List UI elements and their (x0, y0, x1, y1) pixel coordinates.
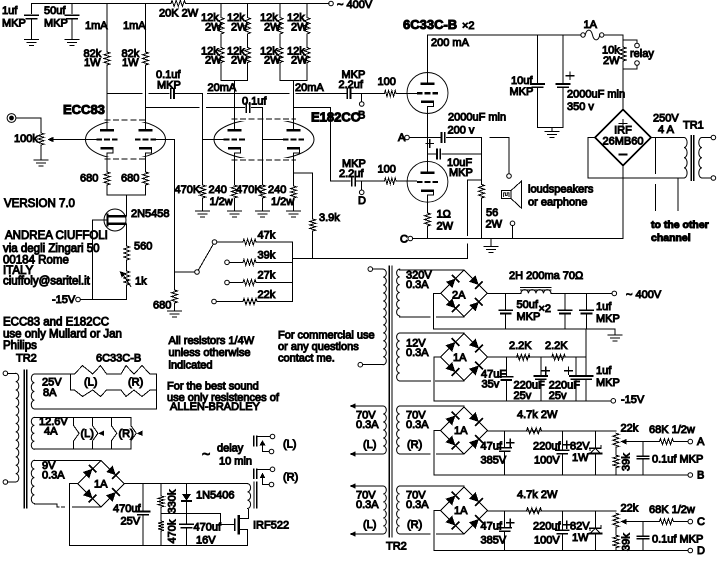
wire 2A left (434, 293, 441, 329)
label C (400, 234, 408, 246)
label 82V 1W C (570, 521, 590, 545)
label 220uf 100V C (533, 521, 561, 547)
label 10uF MKP (447, 157, 473, 179)
terminal B (359, 102, 364, 107)
label + 2000uF 350v (566, 72, 573, 79)
relay contact branch (623, 40, 639, 69)
svg-text:2W: 2W (291, 55, 308, 67)
svg-text:220uf: 220uf (533, 521, 561, 533)
label 6C33C-B heaters (96, 353, 141, 365)
label 4.7k 2W C (517, 489, 558, 501)
svg-text:4.7k 2W: 4.7k 2W (517, 489, 558, 501)
label TR2 left (16, 353, 37, 365)
label 100k (14, 133, 38, 145)
resistor 22k (243, 299, 257, 305)
label delay 10 min (202, 443, 252, 468)
label 1mA left (85, 20, 108, 32)
label 0.1uf coupling2 (242, 96, 267, 108)
svg-text:1A: 1A (584, 19, 598, 31)
terminal A (688, 439, 693, 444)
wire anode upper drop (427, 35, 429, 73)
resistor 3.9k (310, 219, 316, 231)
label 1uf MKP 400V (596, 301, 620, 325)
svg-text:100V: 100V (534, 535, 560, 547)
resistor 22k divider A (613, 433, 619, 447)
label 12k 2W chain2 upper (227, 12, 248, 34)
transformer 70V (R) winding C (397, 486, 400, 534)
label 220uF 25v #2 (549, 380, 580, 403)
wire 12V bridge left (434, 357, 441, 401)
resistor 240 cathode1 (231, 153, 237, 211)
terminal TR1 top (711, 135, 716, 140)
wire 27k (229, 282, 243, 284)
svg-text:1A: 1A (454, 425, 468, 437)
resistor 330k (158, 484, 164, 514)
label 82V 1W A (570, 441, 590, 465)
wire 12k chain 3 mid (279, 34, 281, 48)
node D stub (361, 181, 363, 190)
label 12k 2W chain3 upper (260, 12, 281, 34)
svg-text:2W: 2W (603, 55, 620, 67)
svg-text:MKP: MKP (596, 313, 620, 325)
svg-text:(R): (R) (283, 472, 298, 484)
transformer TR2L 12.6V winding (31, 417, 34, 449)
terminal TR1 bottom (711, 176, 716, 181)
wire 12k chain 1 top (220, 4, 222, 18)
wire E182CC grid1 bus (202, 94, 204, 186)
terminal A (405, 135, 410, 140)
heater resistor kink 4 (131, 417, 143, 449)
svg-text:channel: channel (651, 232, 691, 244)
capacitor 220uf 100V A (556, 431, 569, 475)
svg-text:MKP: MKP (157, 80, 181, 92)
capacitor 0.1uf MKP coupling1 (171, 89, 174, 99)
wire 100 to upper tube grid (396, 93, 417, 95)
wire to other channel 2 (677, 178, 679, 211)
svg-text:68K 1/2w: 68K 1/2w (649, 504, 695, 516)
wire delay bridge left (70, 484, 78, 546)
label 50uf MKP (44, 5, 68, 30)
capacitor 470uf 16V (180, 514, 193, 546)
label VERSION 7.0 (4, 198, 75, 210)
wire 12k chain 3 bottom (279, 63, 281, 81)
svg-text:2W: 2W (486, 219, 503, 231)
label 22k A (621, 423, 639, 435)
label 2000uF min 350 v (567, 89, 625, 114)
label + 220uf A (563, 441, 570, 448)
svg-text:2W: 2W (291, 22, 308, 34)
wire 70V top A (400, 405, 464, 407)
svg-text:220uf: 220uf (533, 441, 561, 453)
label 2.2K #1 (509, 340, 532, 352)
label + IRF 26MB60 - (603, 120, 644, 155)
wire 70V L leads C (350, 483, 384, 537)
resistor heater top (71, 366, 157, 374)
label 12k 2W chain4 lower (287, 46, 308, 67)
svg-text:-15V: -15V (621, 394, 645, 406)
svg-text:27k: 27k (258, 270, 276, 282)
svg-text:or earphone: or earphone (528, 197, 587, 209)
label + 2000uF (426, 140, 433, 147)
tube E182CC envelope (214, 116, 314, 163)
capacitor 220uF 25v #1 (534, 357, 547, 401)
svg-text:16V: 16V (196, 535, 216, 547)
label (R) relay (283, 472, 298, 484)
label 470K #1 (175, 184, 201, 196)
resistor 56 2W (479, 185, 485, 199)
wire 100 to lower tube grid (396, 180, 417, 182)
wire 2A right to choke (487, 292, 521, 294)
svg-text:(L): (L) (363, 519, 376, 531)
wire speaker minus to rail (512, 226, 514, 239)
wire heater left join (70, 374, 72, 390)
svg-text:(L): (L) (84, 377, 97, 389)
label 39k (258, 250, 276, 262)
svg-text:2000uF min: 2000uF min (567, 89, 625, 101)
svg-text:1Ω: 1Ω (437, 209, 451, 221)
label 12k 2W chain1 upper (201, 12, 222, 34)
resistor 12k 2W chain4 upper (304, 18, 310, 35)
capacitor 0.1uf coupling2 (246, 103, 249, 113)
wire 68K to terminal A (674, 441, 689, 443)
tube ECC83 triode2 internals (135, 129, 156, 153)
svg-text:or any questions: or any questions (278, 341, 359, 353)
svg-text:8A: 8A (43, 387, 57, 399)
svg-text:×2: ×2 (539, 303, 552, 315)
wire 9V bottom to bridge (34, 504, 101, 507)
rectifier IRF 26MB60 (595, 110, 651, 166)
resistor 470K grid1 (200, 185, 206, 211)
svg-text:3.9k: 3.9k (319, 212, 340, 224)
wire plate2 to cap2 (146, 106, 245, 108)
transformer 70V (L) winding C (383, 486, 386, 534)
label 1A delay bridge (94, 479, 108, 491)
wire 3.9k bottom (312, 231, 314, 258)
label 220uF 25v #1 (514, 380, 545, 403)
wire E182CC grid1 lead (203, 139, 224, 141)
switch lever (198, 244, 213, 270)
wire bottom rail C (434, 550, 688, 552)
label 1N5406 (196, 490, 235, 502)
svg-text:(R): (R) (128, 377, 143, 389)
label 0.1uf MKP coupling1 (156, 69, 181, 92)
wire plate1 drop (106, 4, 108, 53)
label 82k 1W #1 (84, 48, 102, 69)
transistor IRF522 (235, 510, 249, 546)
wire out node drop (481, 138, 483, 185)
wire fuse to relay node (604, 35, 623, 47)
label 2.2K #2 (545, 340, 568, 352)
switch contact 47k (212, 240, 217, 245)
svg-text:(L): (L) (363, 439, 376, 451)
transistor 2N5458 (93, 209, 127, 231)
label 680 cathode2 (121, 173, 139, 185)
svg-text:~: ~ (202, 446, 210, 462)
resistor 39k (243, 259, 256, 265)
resistor heater bottom (71, 390, 157, 397)
svg-text:0.3A: 0.3A (356, 499, 379, 511)
transformer TR1 core (691, 136, 694, 181)
svg-text:100: 100 (378, 76, 396, 88)
label 1A A (454, 425, 468, 437)
wire 12V top (400, 332, 464, 334)
wire 47k right (256, 241, 292, 243)
terminal D (359, 190, 364, 195)
label 39k vertical C (621, 533, 633, 551)
tube 6C33C-B lower envelope (407, 161, 448, 202)
svg-text:(R): (R) (119, 428, 134, 440)
wire 12k chain 3 top (279, 4, 281, 18)
wire plus rail C (488, 510, 616, 512)
wire 1ohm to rail (427, 226, 429, 239)
wire 12k chain 4 mid (306, 34, 308, 48)
svg-text:22k: 22k (258, 289, 276, 301)
svg-text:1uf: 1uf (596, 365, 612, 377)
resistor 12k 2W chain2 upper (245, 18, 251, 35)
label ~ 400V top (337, 0, 373, 11)
label 1A C (454, 505, 468, 517)
relay contact L (254, 434, 275, 454)
wire 39k right (256, 261, 292, 263)
svg-text:680: 680 (153, 300, 171, 312)
wire gate down (92, 220, 94, 300)
svg-text:39k: 39k (621, 533, 633, 551)
svg-text:(R): (R) (407, 519, 422, 531)
capacitor 10uf MKP B+ (531, 35, 544, 127)
resistor 20K 2W on rail (171, 1, 186, 7)
svg-text:ECC83 and E182CC: ECC83 and E182CC (3, 317, 109, 329)
wire jack to pot (16, 118, 41, 133)
svg-text:relay: relay (630, 48, 654, 60)
label C (697, 516, 705, 528)
wire 82k to anode1 (106, 65, 108, 129)
tube 6C33C-B upper envelope (407, 73, 448, 114)
label + 47uf C (507, 519, 514, 526)
label + 220uF #2 (565, 367, 572, 374)
label 70V 0.3A (R) C (406, 490, 429, 532)
svg-text:VERSION 7.0: VERSION 7.0 (4, 198, 75, 210)
wire 70V bottom C (400, 533, 464, 535)
wire cap1 to grid node (176, 93, 203, 95)
resistor 1 ohm 2W (425, 213, 431, 226)
label IRF522 (253, 520, 289, 532)
svg-text:For commercial use: For commercial use (278, 330, 375, 342)
svg-text:560: 560 (134, 241, 152, 253)
label 240 1/2w #1 (209, 184, 233, 208)
ground 470K #1 (196, 211, 210, 217)
label 47uf 385V C (481, 521, 507, 547)
wire cap bottoms join (538, 127, 564, 131)
label 12k 2W chain4 upper (287, 12, 308, 34)
resistor 680 feedback (172, 290, 178, 311)
wire anode feed t2 (293, 81, 295, 130)
resistor 82k 1W #1 (104, 52, 110, 65)
label 47uF 35v (481, 369, 506, 391)
svg-text:For the best sound: For the best sound (167, 381, 259, 393)
label (L) relay (283, 439, 296, 451)
svg-text:MKP: MKP (44, 18, 68, 30)
label 25V 8A (42, 377, 62, 400)
svg-text:25v: 25v (514, 390, 532, 402)
svg-text:0.3A: 0.3A (406, 347, 429, 359)
label loudspeakers or earphone (528, 184, 594, 209)
transformer 70V (R) winding A (397, 406, 400, 454)
svg-text:680: 680 (121, 173, 139, 185)
label + 47uf A (507, 439, 514, 446)
label 4.7k 2W A (517, 409, 558, 421)
svg-text:56: 56 (486, 207, 498, 219)
svg-text:2W: 2W (231, 22, 248, 34)
wire cathodes join (107, 185, 146, 216)
svg-text:D: D (697, 545, 705, 557)
svg-text:25v: 25v (549, 390, 567, 402)
svg-text:TR1: TR1 (683, 120, 704, 132)
wire to other channel 1 (654, 138, 656, 211)
svg-text:385V: 385V (481, 455, 507, 467)
label 47uf 385V A (481, 441, 507, 467)
svg-text:470uf: 470uf (113, 503, 141, 515)
wire prim bottom (8, 481, 16, 483)
rectifier bridge 1A 12V (441, 334, 488, 381)
label A (398, 132, 406, 144)
resistor 100 grid stopper upper (385, 91, 397, 97)
label MKP 2.2uf upper (339, 69, 366, 91)
svg-text:4A: 4A (44, 426, 58, 438)
svg-text:2W: 2W (264, 55, 281, 67)
label D (697, 545, 705, 557)
wire feedback riser (468, 180, 482, 258)
svg-text:4 A: 4 A (658, 124, 675, 136)
capacitor 1uf MKP 400V (580, 293, 593, 329)
svg-text:use only Mullard or Jan: use only Mullard or Jan (3, 329, 122, 341)
wire 320V top (400, 269, 464, 271)
wire choke to 400V (551, 292, 612, 294)
svg-text:E182CC: E182CC (311, 110, 361, 125)
label 22k (258, 289, 276, 301)
label 250V 4A (653, 113, 679, 137)
svg-text:MKP: MKP (510, 86, 534, 98)
wire upper cathode to lower anode (427, 107, 429, 171)
label best sound note (167, 381, 280, 414)
label 12k 2W chain3 lower (260, 46, 281, 67)
label 22k C (621, 503, 639, 515)
label 3.9k (319, 212, 340, 224)
label 0.1uf MKP C (652, 534, 703, 546)
svg-text:ciuffoly@saritel.it: ciuffoly@saritel.it (3, 276, 91, 288)
speaker icon (502, 181, 522, 208)
resistor 12k 2W chain4 lower (304, 48, 310, 63)
resistor 560 (124, 246, 130, 260)
svg-text:385V: 385V (481, 535, 507, 547)
svg-text:350 v: 350 v (567, 101, 594, 113)
svg-text:(L): (L) (81, 428, 94, 440)
wire switch common stub (175, 271, 195, 273)
label 12k 2W chain1 lower (201, 46, 222, 67)
wire 12k chain 1 bottom (220, 63, 222, 81)
svg-text:C: C (697, 516, 705, 528)
wire E182CC grid2 bus (262, 107, 264, 185)
svg-text:20mA: 20mA (208, 82, 237, 94)
svg-text:470uf: 470uf (194, 522, 222, 534)
label all resistors note (169, 335, 255, 372)
label B (697, 470, 704, 482)
label 100 upper (378, 76, 396, 88)
svg-text:22k: 22k (621, 423, 639, 435)
switch contact 27k (225, 280, 230, 285)
transformer TR1 secondary (699, 138, 702, 179)
wire 12k chain 2 mid (247, 34, 249, 48)
wire 10k bottom (622, 61, 624, 69)
transformer TR2L 25V winding (31, 374, 34, 409)
svg-text:20K 2W: 20K 2W (159, 8, 199, 20)
wire 12.6 bottom rail (34, 448, 130, 450)
wire relay node to bridge (622, 69, 624, 110)
terminal TR2 primary bottom (3, 480, 8, 485)
label 680 feedback (153, 300, 171, 312)
ground B+ caps (545, 131, 559, 137)
svg-text:68K 1/2w: 68K 1/2w (649, 424, 695, 436)
tube 6C33C-B upper internals (417, 73, 438, 107)
wire feedback bus (292, 257, 467, 259)
svg-text:250V: 250V (653, 113, 679, 125)
label 200 mA (431, 37, 470, 49)
resistor 39k divider C (613, 527, 619, 550)
resistor 27k (243, 280, 256, 286)
svg-text:1k: 1k (135, 276, 147, 288)
label 2000uF min 200 v (448, 112, 507, 137)
capacitor 2000uF min 200v (442, 133, 445, 143)
resistor 12k 2W chain1 upper (218, 18, 224, 35)
wire 12k chain 4 top (306, 4, 308, 18)
wire plate1 to cap1 (107, 93, 169, 95)
label commercial note (278, 330, 375, 365)
wire 12V plus rail (488, 356, 587, 358)
label 1A fuse (584, 19, 598, 31)
wire output ground rail (413, 238, 623, 240)
svg-text:100k: 100k (14, 133, 38, 145)
terminal B (688, 473, 693, 478)
tube E182CC triode1 internals (224, 129, 245, 153)
svg-text:A: A (697, 436, 705, 448)
svg-text:loudspeakers: loudspeakers (528, 184, 594, 196)
svg-text:39k: 39k (621, 453, 633, 471)
label D (358, 195, 366, 207)
terminal speaker minus (510, 221, 515, 226)
label 47k (258, 230, 276, 242)
wire bridge ac loop (588, 138, 684, 179)
svg-text:2W: 2W (205, 55, 222, 67)
svg-text:4.7k 2W: 4.7k 2W (517, 409, 558, 421)
label relay (630, 48, 654, 60)
svg-text:1uf: 1uf (2, 5, 18, 17)
wire plate tap to 10uF (428, 153, 436, 155)
svg-text:to the other: to the other (651, 219, 709, 231)
wire anode feed t1 (233, 81, 235, 129)
svg-text:200 mA: 200 mA (431, 37, 470, 49)
wire bridge plus to TR1 (651, 137, 684, 139)
label 20K2W (159, 8, 199, 20)
transformer 12V winding (397, 333, 400, 381)
wire 12k chain 2 top (247, 4, 249, 18)
relay core (254, 482, 257, 508)
label 9V 0.3A (42, 460, 65, 482)
label 2A (452, 290, 466, 302)
relay coil (248, 484, 251, 509)
wire TR1 sec top (702, 137, 711, 139)
capacitor 470uf 25V (137, 484, 150, 546)
wire bridge left C (434, 511, 441, 551)
terminal -15V out (611, 399, 616, 404)
